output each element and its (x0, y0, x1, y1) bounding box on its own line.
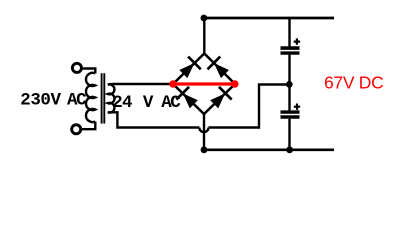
wire capacitor chain middle (288, 55, 290, 111)
svg-text:24: 24 (112, 93, 132, 113)
transformer T1 core line 1 (101, 73, 103, 123)
wire hop (no connection) over bridge bottom wire (199, 128, 208, 133)
transformer T1 primary winding (86, 73, 95, 122)
node junction dot bottom rail capacitor (286, 146, 293, 153)
diode D1 (left to top) (177, 57, 201, 81)
red jumper wire across AC nodes (173, 82, 235, 85)
wire bridge edge left-bottom (173, 84, 204, 114)
diode D4 (bottom to right) (208, 87, 232, 111)
diode D2 (right to top) (207, 57, 231, 81)
wire bridge top corner to positive rail (203, 18, 205, 54)
capacitor C1 plate 2 (281, 51, 300, 54)
capacitor C1 plate 1 (281, 46, 300, 50)
wire secondary top lead to bridge left (108, 83, 173, 86)
svg-text:AC: AC (161, 93, 181, 113)
transformer T1 secondary winding (108, 84, 115, 112)
wire secondary bottom to doubler tap (209, 85, 290, 128)
wire bridge edge top-right (204, 54, 235, 85)
wire bridge edge bottom-right (204, 84, 235, 114)
capacitor C2 plus sign (294, 104, 300, 110)
wire negative bottom rail (204, 149, 334, 152)
node junction dot doubler tap (286, 81, 293, 88)
svg-text:230V: 230V (20, 90, 61, 110)
wire bridge bottom corner to negative rail (203, 114, 205, 150)
wire positive top rail (204, 17, 334, 20)
wire secondary bottom lead (108, 112, 200, 127)
wire primary top lead (83, 69, 96, 74)
transformer T1 primary terminal (bottom) (72, 125, 81, 134)
svg-text:67V DC: 67V DC (324, 72, 383, 92)
node junction dot top rail (201, 15, 208, 22)
capacitor C1 plus sign (294, 38, 300, 44)
capacitor C2 plate 1 (281, 110, 300, 113)
svg-text:AC: AC (67, 90, 87, 110)
transformer T1 core line 2 (103, 73, 105, 123)
wire capacitor chain lower (288, 119, 290, 150)
capacitor C2 plate 2 (281, 115, 300, 119)
wire capacitor chain upper (288, 18, 290, 47)
svg-text:V: V (143, 93, 154, 113)
wire primary bottom lead (82, 122, 95, 130)
node junction dot bottom rail left (201, 146, 208, 153)
transformer T1 primary terminal (top) (72, 63, 81, 72)
wire bridge edge left-top (173, 54, 204, 85)
node red dot right AC corner (231, 80, 239, 88)
diode D3 (bottom to left) (176, 87, 200, 111)
node red dot left AC corner (169, 80, 177, 88)
